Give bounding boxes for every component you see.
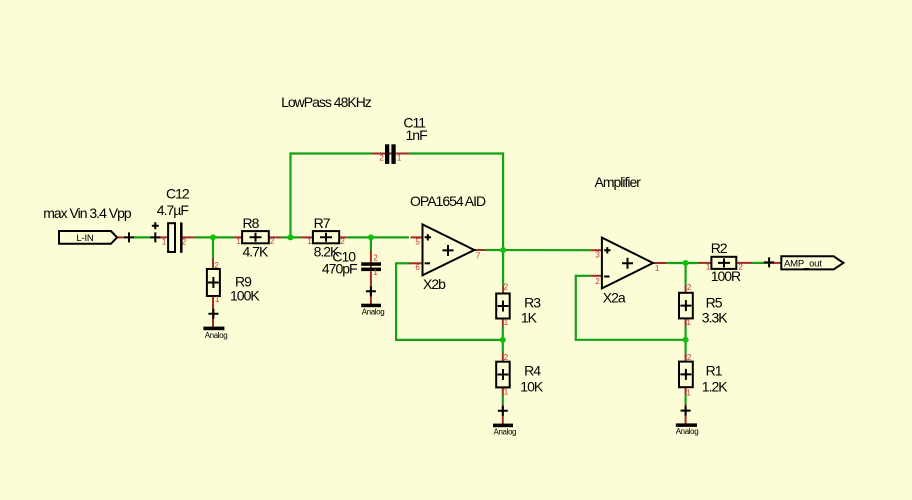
wire node A down to R9: [212, 237, 214, 258]
pin R5.1: [685, 318, 687, 326]
ground bar Analog below R4: [493, 424, 513, 428]
svg-text:R5: R5: [706, 294, 723, 310]
pin R3.1: [502, 319, 504, 327]
wire X2a feedback vertical: [575, 275, 577, 341]
pin R2.2: [736, 262, 752, 264]
capacitor C12 right plate: [180, 222, 183, 252]
svg-text:R7: R7: [314, 215, 331, 231]
resistor R1: [679, 362, 693, 388]
pin gnd below R1: [685, 404, 687, 425]
svg-text:Analog: Analog: [494, 427, 517, 436]
capacitor C10 top plate: [361, 262, 381, 266]
pin R4.1: [502, 387, 504, 395]
svg-text:R4: R4: [524, 363, 541, 379]
resistor R3: [496, 294, 510, 319]
wire X2b feedback vertical: [395, 262, 397, 341]
resistor R2 origin cross: [718, 258, 730, 267]
svg-text:Amplifier: Amplifier: [595, 174, 642, 190]
wire C11 right horizontal: [409, 152, 504, 154]
svg-text:OPA1654 AID: OPA1654 AID: [410, 193, 486, 209]
capacitor C11 right plate: [391, 144, 395, 164]
pin R1.1: [685, 387, 687, 395]
wire tick between C11 plates: [389, 153, 392, 155]
wire R8 to node B / R7: [281, 236, 300, 238]
wire node G down to R5: [684, 263, 686, 285]
pin R7.2: [339, 236, 347, 238]
ground cross below R9: [208, 309, 218, 319]
op-amp X2a origin cross: [622, 258, 633, 269]
resistor R7: [313, 231, 339, 243]
wire node B up to C11 row: [289, 153, 291, 239]
pin X2a.2: [590, 275, 602, 277]
capacitor C12 polarity plus: [152, 222, 159, 229]
wire node E down to R3: [502, 250, 504, 286]
wire L-IN to C12: [133, 236, 151, 238]
capacitor C10 bottom plate: [361, 268, 381, 272]
pin R3.2: [502, 286, 504, 294]
op-amp X2b minus input mark: [425, 262, 430, 264]
resistor R1 origin cross: [680, 369, 691, 380]
svg-text:max Vin 3.4 Vpp: max Vin 3.4 Vpp: [43, 205, 132, 221]
pin C12.2: [182, 236, 195, 238]
resistor R8 origin cross: [250, 233, 262, 242]
pin L-IN: [117, 236, 126, 238]
junction node E: [500, 247, 506, 253]
wire R2 to out cross: [752, 262, 766, 264]
junction node A: [210, 234, 216, 240]
wire tick between C10 plates: [370, 266, 372, 269]
op-amp X2b origin cross: [443, 245, 454, 256]
svg-text:AMP_out: AMP_out: [784, 258, 822, 269]
pin C10.1 + gnd pin: [370, 271, 372, 304]
resistor R4 origin cross: [498, 369, 509, 380]
junction node G: [683, 260, 689, 266]
svg-text:470pF: 470pF: [322, 261, 357, 277]
pin X2a.1: [653, 262, 667, 264]
pin C12.1: [158, 236, 168, 238]
pin C11.2: [372, 153, 385, 155]
resistor R2: [711, 257, 736, 269]
svg-text:X2a: X2a: [603, 290, 626, 306]
wire R4 to gnd cross: [502, 396, 504, 405]
wires green: [133, 153, 766, 405]
capacitor C11 left plate: [385, 144, 389, 164]
pin C10.2: [370, 250, 372, 262]
wire C11 left horizontal: [290, 152, 372, 154]
pin R5.2: [685, 285, 687, 293]
pin gnd below R4: [502, 404, 504, 425]
capacitor C12 left plate: [168, 223, 175, 252]
pin X2b.5: [410, 236, 422, 238]
connector AMP_out: [781, 256, 843, 269]
ground cross below C10: [366, 286, 376, 296]
wire X2a feedback horizontal to node F: [575, 339, 686, 341]
resistor R9: [207, 269, 220, 296]
wire cross at L-IN pin: [124, 232, 134, 242]
ground cross below R4: [498, 406, 508, 416]
pin R1.2: [685, 354, 687, 362]
pin R9.2: [212, 258, 214, 269]
junction node F: [683, 337, 689, 343]
svg-text:R3: R3: [524, 294, 541, 310]
pin R2.1: [699, 262, 712, 264]
op-amp X2b: [423, 224, 475, 275]
svg-text:100K: 100K: [230, 288, 260, 304]
wire R3 to node D to R4: [502, 327, 504, 354]
svg-text:R8: R8: [243, 215, 260, 231]
svg-text:100R: 100R: [711, 268, 741, 284]
wire R1 to gnd cross: [684, 395, 686, 404]
svg-text:R2: R2: [711, 240, 728, 256]
wire R7 to node C to X2b pin5: [347, 236, 409, 238]
svg-text:R1: R1: [706, 363, 723, 379]
svg-text:Analog: Analog: [676, 427, 699, 436]
resistor R8: [242, 231, 269, 243]
wire X2a out to node G to R2: [667, 262, 699, 264]
wire cross before AMP_out: [764, 257, 774, 267]
pin R4.2: [502, 354, 504, 362]
op-amp X2a minus input mark: [604, 276, 609, 278]
wire X2b feedback horizontal to node D: [395, 339, 503, 341]
wire node E to X2a pin3: [486, 249, 590, 251]
pin R8.1: [234, 236, 243, 238]
resistor R3 origin cross: [498, 301, 509, 312]
svg-text:C12: C12: [166, 186, 190, 202]
pin C11.1: [396, 153, 409, 155]
wire X2a pin2 jog left: [576, 275, 590, 277]
wire cross at C12 pin1: [150, 232, 160, 242]
op-amp X2a: [602, 238, 653, 289]
connector L-IN: [59, 231, 117, 244]
junction node D: [500, 337, 506, 343]
op-amp X2a plus input mark: [604, 247, 610, 253]
wire X2b pin6 jog left: [396, 262, 409, 264]
resistor R9 origin cross: [208, 277, 219, 288]
op-amp X2b plus input mark: [425, 234, 431, 240]
pin R9.1 + gnd pin: [212, 296, 214, 328]
wire C11 down to node E: [502, 154, 504, 251]
pin R8.2: [269, 236, 282, 238]
svg-text:L-IN: L-IN: [76, 233, 93, 244]
pin R7.1: [300, 236, 313, 238]
ground bar Analog below C10: [361, 304, 381, 308]
svg-text:4.7µF: 4.7µF: [157, 202, 189, 218]
svg-text:Analog: Analog: [362, 308, 385, 317]
svg-text:10K: 10K: [520, 379, 544, 395]
ground cross below R1: [681, 406, 691, 416]
wire C12 to node A / R8: [195, 236, 234, 238]
svg-text:LowPass 48KHz: LowPass 48KHz: [281, 94, 372, 110]
svg-text:Analog: Analog: [205, 331, 228, 340]
svg-text:4.7K: 4.7K: [243, 243, 269, 259]
junction node C: [368, 234, 374, 240]
svg-text:1K: 1K: [521, 310, 538, 326]
svg-text:1.2K: 1.2K: [702, 379, 728, 395]
pin X2b.6: [409, 262, 423, 264]
wire R5 to node F to R1: [684, 326, 686, 353]
ground bar Analog below R9: [203, 327, 224, 331]
pin AMP_out: [766, 262, 781, 264]
resistor R5: [679, 293, 693, 319]
pin stubs dark red: [117, 154, 781, 425]
ground bar Analog below R1: [676, 423, 697, 427]
resistor R4: [496, 362, 510, 388]
svg-text:1nF: 1nF: [406, 127, 428, 143]
wire node C down to C10: [370, 237, 372, 250]
svg-text:X2b: X2b: [423, 276, 446, 292]
junction node B: [288, 234, 294, 240]
resistor R7 origin cross: [320, 233, 332, 242]
resistor R5 origin cross: [680, 300, 691, 311]
svg-text:3.3K: 3.3K: [702, 310, 728, 326]
pin X2b.7: [474, 249, 486, 251]
pin X2a.3: [590, 249, 602, 251]
